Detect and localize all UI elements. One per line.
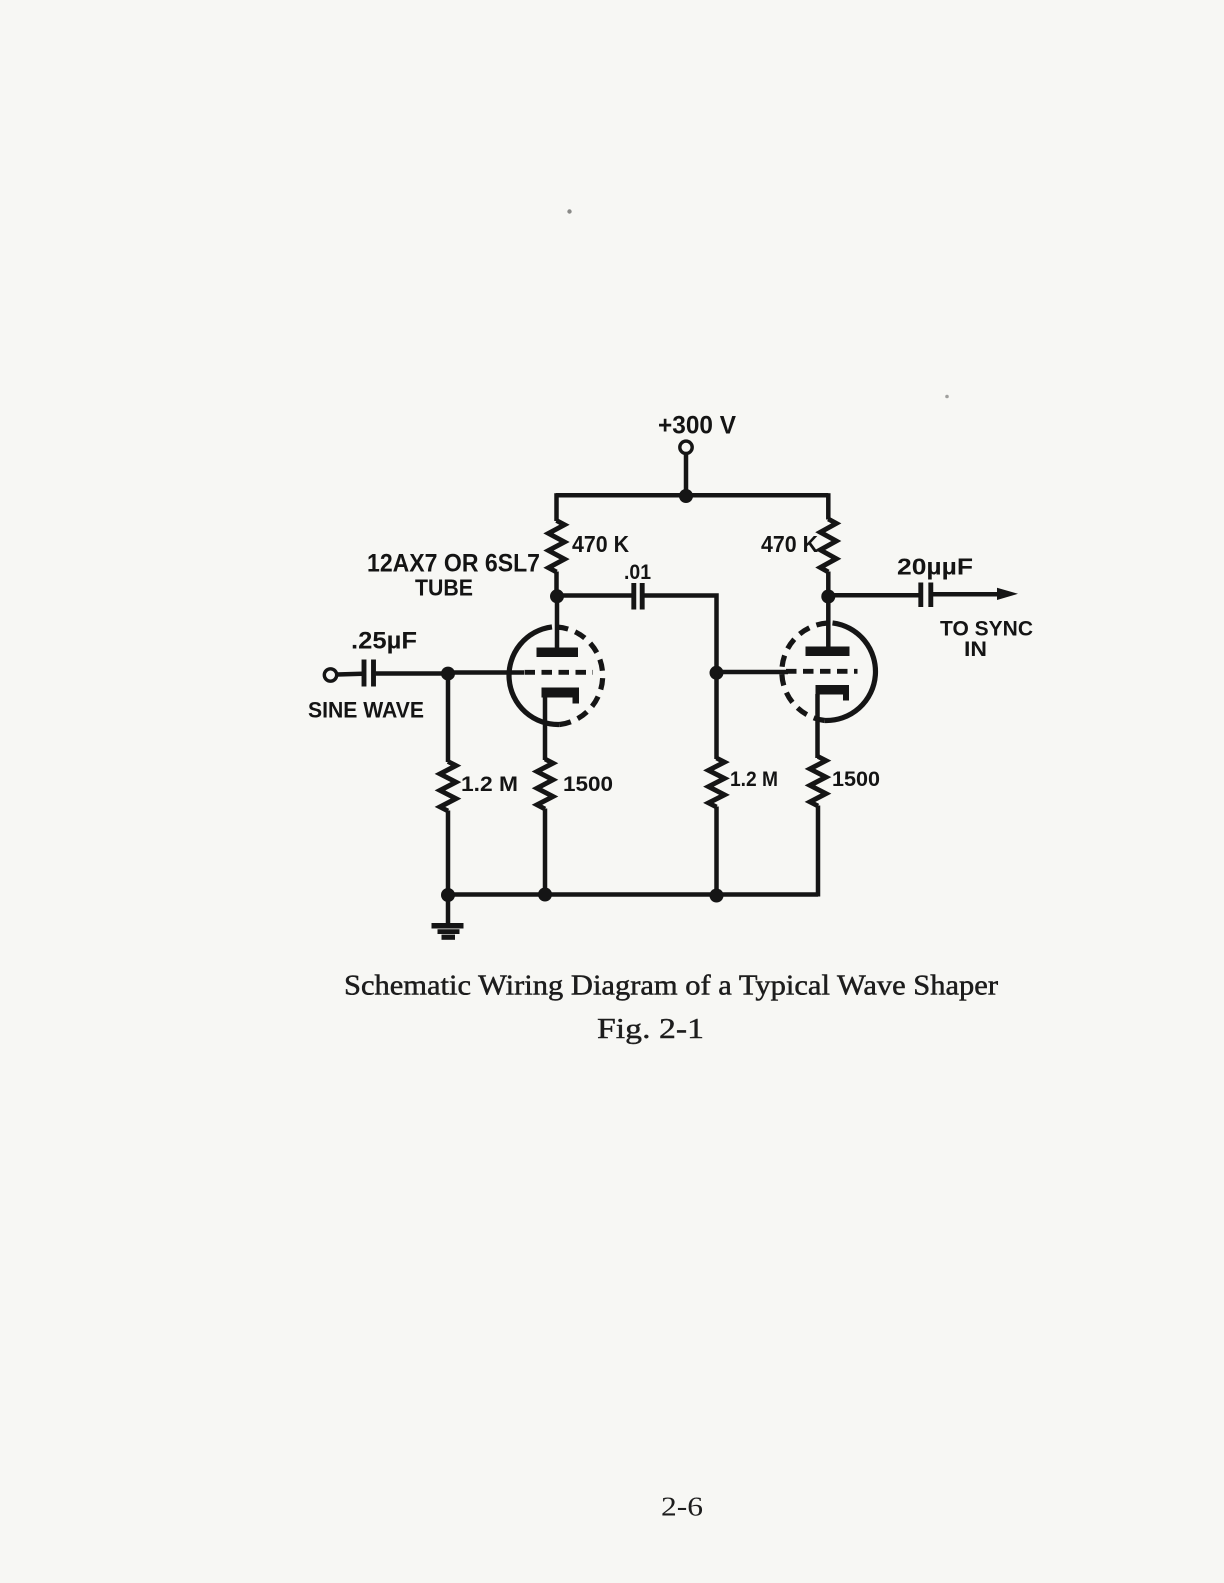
wire plate node to C2: [557, 593, 632, 598]
wire C1 to grid node: [376, 671, 448, 676]
wire V2 cathode lead: [815, 694, 820, 758]
wire 1.2M left top lead: [446, 674, 451, 762]
junction ground rail left: [441, 888, 455, 902]
svg-text:+300 V: +300 V: [658, 412, 736, 440]
resistor R2 1.2M (left): [440, 762, 456, 812]
wire ground rail: [448, 892, 818, 897]
capacitor C1 .25uF: [362, 660, 367, 687]
tube V1 plate bar: [537, 648, 579, 658]
wire grid node to V1 grid: [448, 670, 524, 675]
tube V2 envelope dashed arc: [782, 623, 833, 721]
tube V2 grid dashed: [786, 669, 858, 674]
node V1 plate: [550, 589, 564, 603]
tube V2 envelope solid arc: [825, 623, 876, 721]
wire plate node to C3: [828, 593, 918, 598]
wire B+ top rail: [556, 493, 828, 498]
svg-text:2-6: 2-6: [661, 1492, 703, 1522]
tube V2 cathode: [816, 685, 850, 701]
capacitor C3 20uuF: [918, 583, 923, 608]
svg-text:SINE WAVE: SINE WAVE: [308, 698, 424, 723]
node B+ terminal +300V: [680, 441, 692, 453]
wire R2 bottom lead: [446, 811, 451, 897]
wire R1 bottom lead: [554, 572, 559, 598]
wire R4 bottom lead: [826, 572, 831, 598]
speck top: [567, 209, 571, 213]
resistor R5 1.2M (right): [709, 758, 725, 807]
tube V1 envelope dashed arc: [552, 627, 603, 725]
svg-text:1500: 1500: [563, 772, 613, 796]
wire V2 plate lead: [826, 596, 831, 650]
resistor R1 470K: [549, 521, 565, 573]
tube V2 plate bar: [806, 647, 850, 657]
speck right: [945, 395, 949, 399]
junction ground rail R5: [710, 889, 724, 903]
svg-text:TUBE: TUBE: [415, 575, 473, 601]
wire V1 cathode lead: [543, 697, 548, 761]
wire input terminal to C1: [337, 672, 362, 677]
svg-text:20µµF: 20µµF: [897, 554, 973, 580]
wire C3 to arrow: [933, 592, 1000, 597]
wire supply drop: [684, 454, 689, 496]
resistor R4 470K (right): [820, 519, 836, 572]
wire 1.2M right top lead: [714, 673, 719, 759]
tube V1 grid dashed: [525, 670, 594, 675]
svg-text:.25µF: .25µF: [351, 628, 417, 655]
junction B+ rail: [679, 489, 693, 503]
node V1 grid input: [441, 667, 455, 681]
svg-text:Schematic Wiring Diagram of a: Schematic Wiring Diagram of a Typical Wa…: [344, 970, 998, 1002]
svg-text:Fig. 2-1: Fig. 2-1: [597, 1013, 704, 1045]
arrowhead to sync in: [997, 588, 1018, 600]
resistor R6 1500 (right): [810, 757, 826, 807]
wire R6 bottom lead: [816, 806, 821, 897]
wire V1 plate lead: [555, 596, 560, 651]
wire R4 top lead: [826, 493, 831, 519]
wire R3 bottom lead: [543, 809, 548, 896]
svg-text:470 K: 470 K: [761, 531, 818, 557]
node interstage junction: [710, 666, 724, 680]
svg-text:1500: 1500: [832, 767, 880, 791]
wire R1 top lead: [554, 493, 559, 521]
svg-text:IN: IN: [964, 637, 987, 661]
junction ground rail R3: [538, 888, 552, 902]
terminal SINE WAVE input: [324, 669, 336, 681]
resistor R3 1500 (left): [537, 759, 553, 809]
svg-text:470 K: 470 K: [572, 531, 629, 557]
ground symbol: [446, 895, 451, 924]
wire R5 bottom lead: [714, 807, 719, 898]
tube V1 cathode: [542, 688, 580, 704]
svg-text:1.2 M: 1.2 M: [461, 772, 518, 796]
wire interstage to V2 grid: [717, 670, 789, 675]
tube V1 envelope solid arc: [509, 627, 560, 725]
wire C2 to interstage corner: [644, 596, 716, 675]
svg-text:1.2 M: 1.2 M: [730, 767, 778, 791]
node V2 plate: [821, 590, 835, 604]
svg-text:12AX7 OR 6SL7: 12AX7 OR 6SL7: [367, 550, 540, 578]
capacitor C2 .01: [631, 583, 636, 610]
svg-text:.01: .01: [624, 561, 651, 584]
